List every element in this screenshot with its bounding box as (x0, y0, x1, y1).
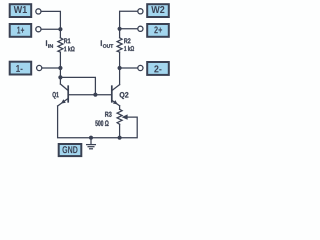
terminal box GND (59, 144, 82, 156)
resistor R3 (potentiometer) (117, 109, 122, 124)
node: junction dot 1+ / bus (58, 27, 62, 31)
R3 wiper arm wire (120, 117, 138, 138)
node: junction dot ground tap (89, 136, 93, 140)
label R3 (105, 112, 111, 117)
terminal box 1+ (10, 24, 32, 37)
label Q2 (120, 92, 129, 99)
pin circle 1- (37, 65, 42, 70)
node: junction dot Q1 collector / diode connection (58, 75, 62, 79)
wire right bus below R2 (119, 52, 121, 85)
node: junction dot R3 bottom (118, 136, 122, 140)
terminal box 2+ (147, 24, 169, 37)
wire diode connection Q1 collector to base rail (60, 77, 95, 94)
label R2 value 1 kOhm (124, 46, 134, 51)
pin circle W2 (138, 9, 143, 14)
node: junction dot 2- / bus (118, 66, 122, 70)
label Q1 (53, 92, 59, 99)
resistor R2 (117, 38, 122, 52)
label R2 (124, 38, 130, 43)
label current I_OUT (101, 40, 113, 47)
label R3 value 500 Ohm (95, 120, 108, 126)
R3 wiper arrow (122, 114, 128, 119)
pin circle W1 (36, 9, 41, 14)
wire Q1 emitter to ground rail (58, 106, 91, 138)
label R1 value 1 kOhm (64, 46, 74, 51)
wire 2+ to bus (120, 28, 138, 30)
label R1 (64, 38, 70, 43)
terminal box W2 (147, 4, 169, 17)
terminal box W1 (10, 4, 32, 17)
transistor Q2 (112, 85, 120, 106)
wire R3 bottom to ground rail (119, 124, 121, 137)
wire W1 to left bus (41, 11, 60, 37)
transistor Q1 (58, 84, 69, 106)
pin circle 2+ (138, 26, 143, 31)
wire 2- to bus (120, 67, 138, 69)
wire base rail Q1-Q2 (68, 94, 112, 96)
resistor R1 (58, 38, 63, 52)
wire W2 to right bus (120, 11, 138, 38)
ground symbol (87, 138, 96, 149)
label current I_IN (46, 40, 53, 47)
terminal box 1- (10, 62, 32, 75)
terminal box 2- (147, 62, 169, 75)
wire left bus below R1 (59, 52, 61, 84)
wire 1+ to bus (41, 28, 60, 30)
node: junction dot base rail (93, 93, 97, 97)
wire ground rail center (91, 137, 120, 139)
wire Q2 emitter to R3 (119, 106, 121, 110)
node: junction dot 1- / bus (58, 66, 62, 70)
node: junction dot 2+ / bus (118, 27, 122, 31)
pin circle 2- (138, 65, 143, 70)
pin circle 1+ (36, 27, 41, 32)
wire 1- to bus (42, 67, 60, 69)
